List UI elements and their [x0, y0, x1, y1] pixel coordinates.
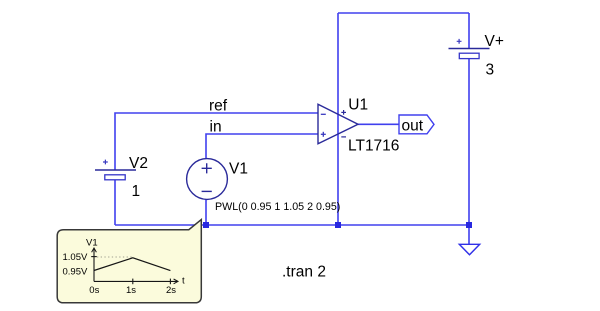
battery V+ — [449, 39, 490, 59]
op-amp U1 inverting input marker — [321, 113, 326, 115]
svg-text:PWL(0 0.95 1 1.05 2 0.95): PWL(0 0.95 1 1.05 2 0.95) — [215, 201, 340, 213]
junction node at V+ battery / ground rail — [466, 222, 472, 228]
svg-text:2s: 2s — [166, 285, 176, 296]
svg-text:0.95V: 0.95V — [63, 267, 88, 278]
svg-text:V1: V1 — [229, 160, 248, 177]
plot y axis with arrow — [92, 248, 97, 281]
plot tick 1.05V — [91, 256, 97, 258]
voltage source V1 circle — [187, 159, 228, 200]
wire top rail down to V+ battery plus plate — [468, 13, 470, 49]
wire ground rail — [115, 224, 469, 226]
svg-text:1.05V: 1.05V — [63, 252, 88, 263]
out net flag — [399, 115, 434, 134]
svg-text:1s: 1s — [126, 285, 136, 296]
ground symbol — [459, 244, 479, 255]
svg-text:V1: V1 — [86, 237, 98, 248]
svg-text:3: 3 — [486, 62, 495, 79]
svg-text:out: out — [402, 117, 424, 134]
svg-text:0s: 0s — [89, 285, 99, 296]
svg-text:1: 1 — [132, 183, 141, 200]
wire ref net: V2 plus up and across to U1 inverting input — [115, 113, 318, 170]
wire V+ battery minus to ground rail — [468, 59, 470, 226]
plot x axis with arrow — [94, 279, 178, 284]
wire U1 V+ pin vertical through symbol down to ground rail — [337, 13, 339, 225]
plot tick 2s — [169, 279, 171, 285]
junction node at U1 V- pin / ground rail — [335, 222, 341, 228]
op-amp U1 triangle body — [318, 104, 358, 144]
wire ground rail down to ground symbol — [468, 225, 470, 244]
op-amp U1 V+ power pin marker — [341, 110, 346, 115]
svg-text:ref: ref — [209, 98, 228, 115]
plot V1 triangle waveform — [94, 258, 170, 271]
plot dotted guide line at 1.05V — [97, 256, 133, 258]
svg-text:in: in — [210, 119, 222, 136]
wire top supply rail — [338, 12, 469, 14]
op-amp U1 V- power pin marker — [341, 136, 346, 138]
junction node at V1 / ground rail — [203, 222, 209, 228]
wire V1 minus down to ground rail — [205, 199, 207, 225]
wire V2 minus down to ground rail — [114, 180, 116, 226]
svg-text:V+: V+ — [485, 33, 504, 50]
wire U1 output to out flag — [358, 123, 399, 125]
op-amp U1 non-inverting input marker — [321, 132, 326, 137]
svg-text:V2: V2 — [129, 155, 148, 172]
svg-text:t: t — [182, 276, 185, 287]
plot tick 1s — [132, 279, 134, 285]
wire in net: V1 plus up and across to U1 non-inverting input — [206, 134, 318, 159]
annotation note box with callout tail — [57, 220, 201, 303]
battery V2 — [95, 160, 136, 180]
svg-text:LT1716: LT1716 — [348, 138, 399, 155]
svg-text:U1: U1 — [348, 96, 368, 113]
svg-text:.tran 2: .tran 2 — [282, 264, 326, 281]
